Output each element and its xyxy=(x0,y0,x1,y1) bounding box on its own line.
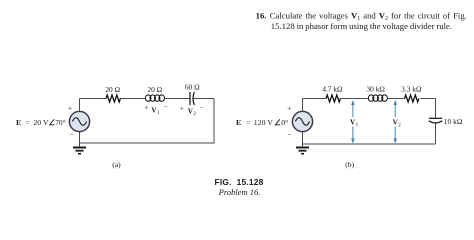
svg-text:=: = xyxy=(25,118,30,127)
svg-text:2: 2 xyxy=(398,123,401,128)
svg-text:120 V: 120 V xyxy=(254,118,274,127)
svg-text:20 Ω: 20 Ω xyxy=(147,85,162,94)
svg-text:+: + xyxy=(287,104,291,113)
svg-text:15.128 in phasor form using th: 15.128 in phasor form using the voltage … xyxy=(271,21,452,31)
svg-text:+: + xyxy=(145,104,149,112)
svg-text:+: + xyxy=(180,105,184,113)
svg-text:10 kΩ: 10 kΩ xyxy=(444,117,463,126)
svg-text:(a): (a) xyxy=(112,160,121,169)
svg-text:−: − xyxy=(69,130,73,139)
svg-text:E: E xyxy=(236,118,241,127)
svg-text:−: − xyxy=(287,130,291,139)
svg-text:16.: 16. xyxy=(256,11,267,21)
svg-text:E: E xyxy=(16,118,21,127)
svg-text:−: − xyxy=(200,104,204,112)
svg-text:1: 1 xyxy=(356,123,359,128)
svg-text:−: − xyxy=(164,103,168,111)
svg-text:20 V: 20 V xyxy=(33,118,49,127)
svg-text:=: = xyxy=(246,118,251,127)
svg-text:FIG. 15.128: FIG. 15.128 xyxy=(215,177,264,187)
svg-text:0°: 0° xyxy=(281,118,288,127)
svg-text:4.7 kΩ: 4.7 kΩ xyxy=(322,85,343,94)
svg-text:30 kΩ: 30 kΩ xyxy=(366,85,385,94)
svg-text:1: 1 xyxy=(157,110,160,116)
svg-text:60 Ω: 60 Ω xyxy=(185,83,200,92)
svg-text:70°: 70° xyxy=(55,118,65,127)
svg-text:+: + xyxy=(68,104,72,113)
svg-text:20 Ω: 20 Ω xyxy=(105,85,120,94)
svg-text:(b): (b) xyxy=(345,160,354,169)
svg-text:3.3 kΩ: 3.3 kΩ xyxy=(401,85,422,94)
svg-text:Problem 16.: Problem 16. xyxy=(218,187,261,197)
svg-text:2: 2 xyxy=(193,111,196,117)
